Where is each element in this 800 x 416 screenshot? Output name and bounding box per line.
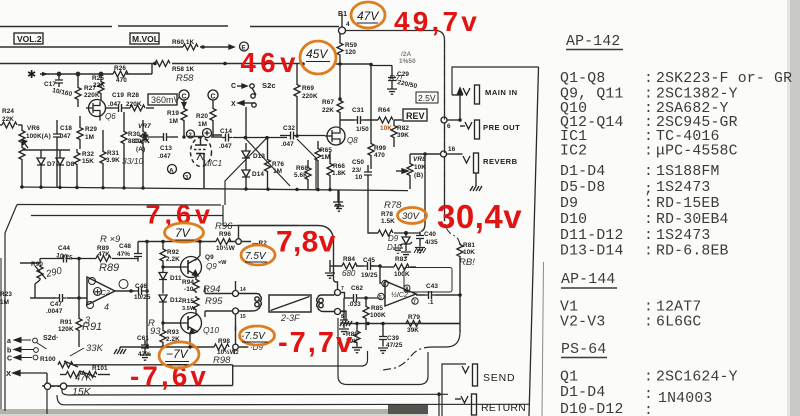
- svg-text:Q8: Q8: [347, 136, 358, 145]
- svg-text:C61: C61: [137, 335, 149, 342]
- svg-text:R64: R64: [378, 107, 390, 114]
- svg-text:(B): (B): [414, 172, 423, 179]
- svg-text:X: X: [231, 101, 236, 108]
- svg-text:15K: 15K: [72, 386, 92, 398]
- svg-text:680: 680: [342, 269, 356, 278]
- svg-text:360mV: 360mV: [151, 95, 180, 105]
- svg-text:SEND: SEND: [483, 372, 515, 384]
- svg-text:1S2473: 1S2473: [656, 180, 710, 196]
- svg-text::: :: [644, 196, 653, 212]
- svg-text:R32: R32: [82, 151, 94, 158]
- svg-text:Q9: Q9: [205, 254, 214, 261]
- svg-text:-7,6v: -7,6v: [130, 361, 209, 392]
- resistor R98: [214, 344, 229, 350]
- svg-text:C14: C14: [220, 128, 232, 135]
- svg-text:S2c: S2c: [262, 81, 276, 90]
- svg-text:D14: D14: [252, 171, 264, 178]
- resistor R82: [391, 120, 397, 147]
- svg-text:VR8: VR8: [413, 156, 426, 163]
- svg-text:D11: D11: [170, 275, 182, 282]
- jack MAIN IN: [452, 85, 480, 104]
- junction dots 7V row: [145, 240, 202, 244]
- svg-text:A: A: [169, 168, 174, 175]
- jack panel box: [452, 67, 544, 416]
- arrow to node E: [228, 45, 234, 49]
- svg-text:IC2: IC2: [560, 144, 587, 160]
- svg-text:C: C: [211, 94, 216, 101]
- svg-text:4: 4: [346, 21, 350, 28]
- pin 7: [335, 290, 341, 296]
- svg-text:M.VOL: M.VOL: [132, 34, 159, 44]
- svg-text:D10-D12: D10-D12: [560, 402, 624, 416]
- resistor R96: [216, 239, 231, 245]
- wire pins vertical stubs: [235, 281, 237, 331]
- diode D7: [37, 150, 45, 187]
- svg-text:6: 6: [447, 123, 451, 130]
- wire lower bus y323: [344, 323, 460, 325]
- svg-text::: :: [644, 370, 653, 386]
- svg-text:R83: R83: [395, 256, 407, 263]
- svg-text:1S188FM: 1S188FM: [656, 164, 720, 180]
- svg-text:D13: D13: [253, 153, 265, 160]
- svg-text:C: C: [7, 356, 12, 363]
- svg-text:100K(A): 100K(A): [26, 133, 51, 140]
- svg-text:-7,7v: -7,7v: [278, 327, 354, 359]
- svg-text:.047: .047: [219, 143, 232, 150]
- ground stub mid: [334, 191, 344, 212]
- capacitor C40: [415, 232, 425, 253]
- svg-text:2.5V: 2.5V: [418, 93, 436, 103]
- svg-text:47V: 47V: [357, 9, 379, 23]
- resistor R81: [457, 243, 463, 332]
- svg-text:R93: R93: [167, 329, 179, 336]
- resistor R59: [337, 34, 343, 64]
- svg-text:-7.5V: -7.5V: [241, 331, 266, 342]
- wire R64 row: [340, 119, 402, 121]
- wire pin12 up: [236, 326, 249, 347]
- junction c45 r83: [378, 264, 382, 268]
- node E: [240, 42, 249, 51]
- svg-text:C: C: [231, 83, 236, 90]
- svg-text:1.5K: 1.5K: [381, 218, 395, 225]
- ground symbol below bus: [333, 190, 343, 207]
- svg-text:.033: .033: [348, 301, 361, 308]
- svg-text:22K: 22K: [93, 82, 105, 89]
- resistor R89: [79, 256, 138, 262]
- capacitor C50: [364, 165, 372, 190]
- capacitor C47: [56, 294, 66, 302]
- rounded board box bottom: [338, 318, 428, 385]
- svg-text:PS-64: PS-64: [561, 342, 606, 358]
- svg-text:10½W: 10½W: [216, 244, 236, 252]
- svg-text::: :: [644, 244, 653, 260]
- svg-text:-10: -10: [184, 286, 194, 293]
- svg-text:C39: C39: [387, 335, 399, 342]
- svg-text:C43: C43: [426, 283, 438, 290]
- svg-text:R78: R78: [381, 211, 393, 218]
- svg-text:C29: C29: [397, 71, 409, 78]
- svg-text:R98: R98: [218, 338, 230, 345]
- board outline middle: [5, 136, 316, 411]
- svg-text:1M: 1M: [198, 121, 207, 128]
- svg-text:D1-D4: D1-D4: [560, 164, 605, 180]
- svg-text:VR7: VR7: [138, 123, 151, 130]
- svg-text:V2-V3: V2-V3: [560, 315, 605, 331]
- svg-text::: :: [644, 164, 653, 180]
- resistor R84: [342, 263, 357, 269]
- svg-text:47/25: 47/25: [386, 342, 403, 349]
- svg-text:R28: R28: [127, 92, 139, 99]
- resistor R58: [155, 61, 170, 67]
- svg-text:R31: R31: [107, 150, 119, 157]
- pin 14: [233, 291, 239, 297]
- svg-text:R99: R99: [374, 145, 386, 152]
- svg-text:C13: C13: [160, 145, 172, 152]
- resistor R80: [352, 324, 362, 353]
- resistor R76: [265, 138, 271, 189]
- node 2: [187, 130, 195, 138]
- resistor R99: [368, 65, 374, 170]
- wire -7V row: [120, 346, 214, 348]
- svg-text::: :: [644, 228, 653, 244]
- svg-text:22K: 22K: [322, 107, 334, 114]
- scan grey band bottom: [0, 409, 428, 416]
- wire long bottom rail: [233, 351, 368, 366]
- svg-text:C19: C19: [112, 92, 124, 99]
- svg-text:C62: C62: [351, 285, 363, 292]
- svg-text:D1-D4: D1-D4: [560, 385, 605, 401]
- transistor Q6: [86, 100, 106, 121]
- svg-text:R90: R90: [31, 261, 43, 268]
- tube IC1: [191, 138, 212, 189]
- resistor R93: [160, 329, 166, 347]
- diode D12: [159, 295, 167, 329]
- svg-text:3.9K: 3.9K: [106, 157, 120, 164]
- svg-text:Q1-Q8: Q1-Q8: [560, 71, 605, 87]
- svg-text:10K: 10K: [414, 164, 426, 171]
- svg-text:470: 470: [116, 77, 127, 84]
- resistor R28: [130, 105, 154, 111]
- pin 8: [335, 309, 341, 315]
- jack SEND: [462, 364, 478, 386]
- svg-text:19/25: 19/25: [361, 272, 378, 279]
- svg-text:Q6: Q6: [105, 112, 116, 121]
- junction dots top q8: [338, 63, 373, 101]
- jack REVERB: [447, 153, 479, 173]
- svg-text:120K: 120K: [58, 326, 74, 333]
- wire q9 collector: [195, 242, 200, 261]
- svg-text:a: a: [7, 338, 11, 345]
- capacitor C13: [143, 133, 178, 141]
- svg-text:R94: R94: [182, 279, 194, 286]
- node C left: [179, 90, 189, 100]
- svg-text:45V: 45V: [306, 47, 328, 61]
- svg-text:R100: R100: [40, 356, 56, 363]
- svg-text:23/: 23/: [352, 167, 361, 174]
- handwritten voltages in circles: [166, 9, 421, 361]
- svg-text:C47: C47: [50, 301, 62, 308]
- wire pin16 to C40: [421, 154, 425, 232]
- diode D11: [159, 270, 167, 294]
- node B1: [339, 14, 346, 34]
- resistor R32: [74, 149, 80, 187]
- svg-text:1S2473: 1S2473: [656, 228, 710, 244]
- svg-text:R68: R68: [296, 165, 308, 172]
- svg-text:R20: R20: [196, 113, 208, 120]
- svg-text:220K: 220K: [84, 92, 100, 99]
- wire q9 to pin14: [205, 287, 233, 318]
- svg-text:R58: R58: [176, 73, 194, 84]
- svg-text:R ×9: R ×9: [100, 234, 121, 245]
- svg-text:RD-15EB: RD-15EB: [656, 196, 720, 212]
- svg-text:47%: 47%: [117, 251, 130, 258]
- wire switch drop: [245, 107, 247, 136]
- wire pin7 pin8: [341, 293, 347, 312]
- coil secondary: [317, 295, 335, 312]
- svg-text::: :: [644, 71, 653, 87]
- junction dots mid: [182, 134, 298, 139]
- svg-text:D9: D9: [560, 196, 578, 212]
- svg-text:R67: R67: [322, 99, 334, 106]
- svg-text:49,7v: 49,7v: [394, 6, 480, 37]
- svg-text:V1: V1: [560, 300, 578, 316]
- RIGHT PANEL PARTS LIST: [560, 34, 792, 416]
- svg-text:7: 7: [341, 286, 344, 292]
- resistor R31: [100, 130, 106, 187]
- svg-text:D7: D7: [47, 161, 56, 168]
- svg-text:R30: R30: [128, 131, 140, 138]
- svg-text:47%: 47%: [138, 351, 151, 358]
- svg-text::: :: [644, 387, 653, 403]
- diode D14: [242, 158, 250, 189]
- svg-text:Q9: Q9: [206, 262, 217, 271]
- box 2.5V: [416, 92, 438, 103]
- diode D8: [56, 150, 64, 187]
- resistor R64: [378, 117, 393, 123]
- svg-text:R84: R84: [343, 256, 355, 263]
- svg-text:VOL.2: VOL.2: [17, 34, 42, 44]
- svg-text::: :: [644, 212, 653, 228]
- svg-text:1/50: 1/50: [356, 126, 369, 133]
- svg-text:R66: R66: [333, 163, 345, 170]
- svg-text::: :: [644, 403, 653, 416]
- svg-text:D5-D8: D5-D8: [560, 180, 605, 196]
- svg-text:MAIN IN: MAIN IN: [485, 88, 518, 97]
- svg-text:C40: C40: [424, 231, 436, 238]
- wire VR6 diode row: [22, 149, 70, 151]
- svg-text:R23: R23: [0, 291, 12, 298]
- svg-text:220K: 220K: [302, 93, 318, 100]
- svg-text:¼IC1: ¼IC1: [203, 159, 222, 168]
- svg-text:.047: .047: [281, 141, 294, 148]
- svg-text:5.6K: 5.6K: [294, 172, 308, 179]
- svg-text:R91: R91: [82, 321, 102, 333]
- svg-text:93: 93: [150, 326, 161, 337]
- pin node 7V: [236, 239, 242, 245]
- svg-text:.1: .1: [428, 299, 434, 306]
- svg-text:2SK223-F or- GR: 2SK223-F or- GR: [656, 71, 792, 87]
- capacitor C39: [378, 324, 388, 354]
- chain line board boundary: [445, 40, 461, 248]
- svg-text:Q1: Q1: [560, 370, 578, 386]
- resistor R19: [181, 100, 187, 137]
- svg-text:C46: C46: [135, 283, 147, 290]
- svg-text:6: 6: [383, 282, 386, 288]
- wire supply row y74: [40, 64, 152, 76]
- svg-text:15: 15: [240, 314, 246, 320]
- svg-text:R81: R81: [463, 242, 475, 249]
- diode D13: [242, 143, 250, 158]
- svg-text:b: b: [7, 348, 11, 355]
- arrow pre-main: [458, 88, 463, 120]
- capacitor C45: [364, 262, 374, 270]
- wire Q8 drain drop: [339, 64, 341, 99]
- svg-text:D12: D12: [170, 297, 182, 304]
- ground marks above opamp: [393, 248, 426, 253]
- svg-text:−7V: −7V: [166, 347, 189, 361]
- svg-text:10: 10: [355, 174, 363, 181]
- svg-text:.047: .047: [158, 153, 171, 160]
- junction dots ground bus: [20, 185, 331, 191]
- node 3: [184, 173, 191, 180]
- bottom outline lines: [47, 388, 529, 414]
- svg-text:.047: .047: [108, 101, 121, 108]
- svg-text:12AT7: 12AT7: [656, 300, 701, 316]
- box VOL.2: [14, 33, 43, 44]
- svg-text:X: X: [6, 369, 11, 378]
- svg-text:12: 12: [233, 350, 239, 356]
- box 360mV: [148, 94, 177, 105]
- resistor R60: [183, 44, 198, 50]
- svg-text:100K: 100K: [370, 312, 386, 319]
- svg-text::: :: [644, 144, 653, 160]
- svg-text:R85: R85: [371, 305, 383, 312]
- svg-text:2SC1624-Y: 2SC1624-Y: [656, 370, 738, 386]
- ground bus: [20, 187, 408, 191]
- svg-text:C44: C44: [58, 245, 70, 252]
- svg-text::: :: [644, 300, 653, 316]
- svg-text:7,6v: 7,6v: [146, 200, 215, 230]
- svg-text:4/35: 4/35: [425, 239, 438, 246]
- resistor R78: [378, 230, 420, 236]
- svg-text:C50: C50: [352, 159, 364, 166]
- svg-text:R26: R26: [114, 65, 126, 72]
- resistor R68: [305, 160, 311, 189]
- node plus: [203, 129, 212, 138]
- svg-text:C48: C48: [119, 243, 131, 250]
- node A: [168, 165, 177, 174]
- svg-text:AP-144: AP-144: [561, 272, 615, 288]
- svg-text:7: 7: [413, 300, 416, 306]
- scan smudge left edge: [0, 258, 2, 412]
- pin8 ground: [340, 311, 352, 326]
- small resistors q9 q10 emitters: [193, 276, 199, 314]
- zener D10: [400, 233, 412, 257]
- svg-text:1M: 1M: [169, 118, 178, 125]
- wire outline midleft: [74, 365, 233, 386]
- wire top bus 3: [0, 63, 371, 66]
- svg-text:B1: B1: [338, 11, 347, 18]
- svg-text:REV: REV: [406, 111, 425, 121]
- svg-text:D11-D12: D11-D12: [560, 228, 624, 244]
- svg-text:33K: 33K: [86, 343, 104, 354]
- svg-text:RB!: RB!: [459, 257, 475, 268]
- svg-text:1M: 1M: [85, 134, 94, 141]
- svg-text:39K: 39K: [397, 132, 409, 139]
- svg-text:AP-142: AP-142: [566, 34, 620, 50]
- svg-text:PRE OUT: PRE OUT: [483, 123, 520, 132]
- resistor R83 feedback: [380, 264, 416, 270]
- svg-text:RD-6.8EB: RD-6.8EB: [656, 244, 729, 260]
- svg-text:R96: R96: [219, 231, 231, 238]
- svg-text:R79: R79: [408, 314, 420, 321]
- svg-text:6L6GC: 6L6GC: [656, 315, 701, 331]
- junction c62: [364, 296, 368, 300]
- resistor R26: [113, 71, 128, 77]
- svg-text::: :: [644, 315, 653, 331]
- svg-text:100K: 100K: [134, 138, 150, 145]
- svg-text:10K: 10K: [463, 249, 475, 256]
- resistor R91: [78, 298, 80, 317]
- svg-text:R76: R76: [272, 161, 284, 168]
- svg-text:R95: R95: [205, 296, 223, 307]
- svg-text:120: 120: [345, 49, 356, 56]
- svg-text:R82: R82: [397, 125, 409, 132]
- wire q9 q10 bases: [147, 242, 190, 348]
- svg-text:C18: C18: [60, 125, 72, 132]
- op-amp IC2a: [87, 277, 115, 305]
- svg-text:/2A: /2A: [401, 51, 412, 58]
- transistor Q9: [180, 257, 202, 278]
- svg-text:R101: R101: [92, 365, 108, 372]
- svg-text:5: 5: [379, 295, 382, 301]
- resistor R85: [363, 298, 369, 330]
- svg-text:1.8K: 1.8K: [332, 170, 346, 177]
- vertical feedback x79: [78, 259, 80, 299]
- wire c45 node to pin6: [380, 266, 382, 283]
- svg-text:14: 14: [240, 287, 246, 293]
- jack PRE OUT: [460, 120, 480, 139]
- SEND enclosure: [439, 364, 466, 416]
- box M.VOL: [130, 33, 159, 44]
- capacitor C62 ground left: [339, 298, 349, 334]
- wire to R78: [368, 191, 378, 233]
- svg-text:10K: 10K: [380, 125, 392, 132]
- svg-text:R98: R98: [213, 355, 231, 366]
- potentiometer VR7: [140, 120, 149, 188]
- svg-text:R58 1K: R58 1K: [172, 66, 195, 73]
- svg-text:2-3F: 2-3F: [280, 313, 300, 323]
- svg-text:220K: 220K: [126, 101, 142, 108]
- resistor R30: [121, 112, 127, 187]
- svg-text:1N4003: 1N4003: [658, 391, 712, 407]
- jack RETURN: [455, 394, 477, 415]
- resistor R69: [294, 64, 300, 135]
- svg-text:2.2K: 2.2K: [166, 256, 180, 263]
- box REV: [403, 109, 427, 121]
- pin 12 node: [233, 344, 239, 350]
- ground r84: [325, 266, 335, 278]
- svg-text:R19: R19: [167, 110, 179, 117]
- svg-text:C32: C32: [283, 125, 295, 132]
- resistor R67: [337, 99, 343, 127]
- svg-text:Q10: Q10: [203, 325, 219, 335]
- svg-text:R78: R78: [384, 200, 402, 211]
- transistor Q8: [325, 127, 345, 145]
- svg-text:C: C: [182, 94, 187, 101]
- svg-text:47K: 47K: [98, 251, 110, 258]
- svg-text:39K: 39K: [407, 327, 419, 334]
